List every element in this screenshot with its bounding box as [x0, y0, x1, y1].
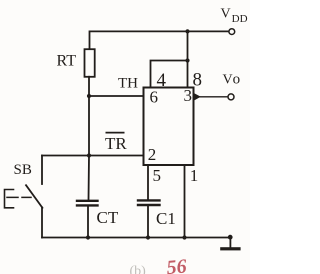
wire SB to pin 2 (TR): [42, 155, 144, 157]
op IC U1 555 body: [144, 88, 194, 166]
svg-text:SB: SB: [14, 162, 32, 178]
switch SB blade: [26, 185, 42, 208]
junction CT bottom: [86, 235, 90, 239]
node TH junction: [87, 94, 91, 98]
wire pin 5 to C1: [147, 165, 149, 200]
switch SB actuator dashed link: [7, 196, 31, 198]
capacitor C1 bottom plate: [138, 204, 160, 206]
wire left vertical RT to CT: [88, 77, 91, 201]
svg-text:TH: TH: [118, 76, 138, 92]
ground bar: [220, 247, 240, 250]
switch SB lower lead: [41, 208, 43, 238]
svg-text:TR: TR: [105, 134, 127, 153]
svg-text:8: 8: [193, 70, 203, 91]
ground stem: [229, 237, 231, 247]
ground junction dot: [228, 235, 233, 240]
wire pin 1 to bottom rail: [184, 165, 186, 238]
wire C1 to bottom rail: [147, 205, 149, 238]
junction pin8 at VDD rail: [185, 29, 189, 33]
resistor R T: [85, 49, 95, 77]
svg-text:2: 2: [148, 145, 157, 164]
svg-text:CT: CT: [97, 208, 119, 227]
wire CT to bottom rail: [87, 205, 89, 237]
terminal Vo: [228, 94, 234, 100]
switch SB upper lead: [41, 156, 43, 185]
capacitor C1 top plate: [138, 199, 160, 201]
svg-text:3: 3: [184, 86, 193, 105]
junction C1 bottom: [146, 235, 150, 239]
junction pin4 strap to pin8 wire: [185, 58, 189, 62]
svg-text:RT: RT: [57, 52, 77, 69]
wire bottom rail: [42, 237, 230, 239]
terminal VDD: [229, 29, 235, 35]
svg-text:56: 56: [166, 255, 188, 274]
capacitor CT bottom plate: [77, 204, 98, 206]
svg-text:Vo: Vo: [223, 72, 241, 88]
wire TH to pin 6: [89, 95, 144, 97]
node TR junction: [87, 153, 91, 157]
svg-text:5: 5: [153, 166, 162, 185]
switch SB pushbutton bracket: [5, 190, 14, 208]
capacitor CT top plate: [77, 200, 98, 202]
wire pin4 strap: [151, 61, 188, 88]
svg-text:C1: C1: [156, 209, 176, 228]
svg-text:4: 4: [157, 70, 167, 91]
svg-text:6: 6: [150, 88, 159, 107]
svg-text:(b): (b): [130, 264, 147, 274]
wire pin 3 to Vo: [194, 96, 229, 98]
svg-text:1: 1: [190, 166, 199, 185]
arrow on output wire: [194, 93, 201, 101]
wire pin8 to VDD rail: [187, 31, 189, 87]
label TR overline: [106, 132, 125, 134]
junction pin 1 bottom: [182, 235, 186, 239]
wire VDD rail from RT top: [90, 31, 230, 49]
